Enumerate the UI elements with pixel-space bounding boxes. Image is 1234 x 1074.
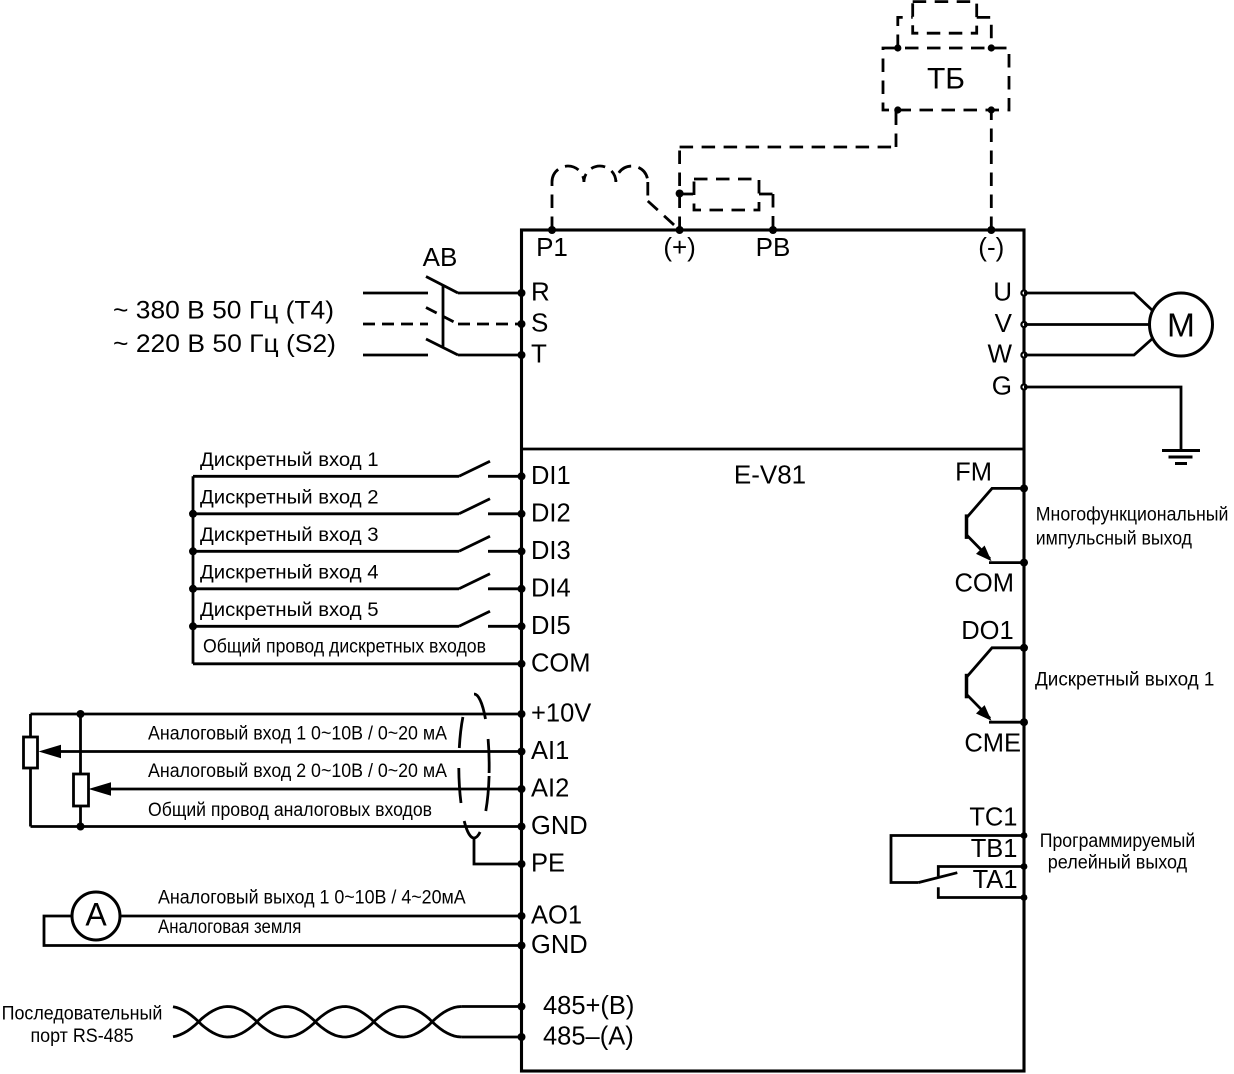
- svg-text:(+): (+): [663, 232, 696, 262]
- svg-text:TB1: TB1: [971, 835, 1018, 863]
- svg-text:Дискретный вход 2: Дискретный вход 2: [200, 487, 379, 508]
- svg-text:Дискретный вход 3: Дискретный вход 3: [200, 525, 379, 546]
- svg-text:Дискретный вход 4: Дискретный вход 4: [200, 562, 379, 583]
- svg-text:P1: P1: [536, 232, 568, 262]
- svg-text:485–(A): 485–(A): [543, 1023, 634, 1051]
- svg-text:~ 220 В 50 Гц (S2): ~ 220 В 50 Гц (S2): [113, 330, 336, 358]
- svg-text:TA1: TA1: [973, 866, 1018, 894]
- svg-text:U: U: [993, 277, 1012, 307]
- svg-text:PB: PB: [756, 232, 791, 262]
- svg-text:DO1: DO1: [961, 617, 1013, 645]
- svg-text:релейный выход: релейный выход: [1048, 853, 1187, 874]
- svg-text:DI3: DI3: [531, 537, 571, 565]
- svg-text:GND: GND: [531, 812, 588, 840]
- svg-text:Общий провод аналоговых входов: Общий провод аналоговых входов: [148, 800, 432, 821]
- svg-text:M: M: [1167, 308, 1195, 345]
- svg-text:DI2: DI2: [531, 499, 571, 527]
- svg-text:Аналоговый вход 2 0~10В / 0~20: Аналоговый вход 2 0~10В / 0~20 мА: [148, 761, 447, 782]
- svg-text:Общий провод дискретных входов: Общий провод дискретных входов: [203, 636, 486, 657]
- svg-text:COM: COM: [955, 569, 1015, 597]
- svg-text:DI1: DI1: [531, 462, 571, 490]
- svg-text:DI5: DI5: [531, 612, 571, 640]
- svg-text:Дискретный выход 1: Дискретный выход 1: [1035, 670, 1214, 691]
- svg-text:AI1: AI1: [531, 737, 569, 765]
- svg-text:(-): (-): [978, 232, 1004, 262]
- svg-text:А: А: [85, 897, 107, 933]
- svg-text:Аналоговый вход 1 0~10В / 0~20: Аналоговый вход 1 0~10В / 0~20 мА: [148, 724, 447, 745]
- svg-text:Последовательный: Последовательный: [2, 1004, 163, 1025]
- svg-text:GND: GND: [531, 931, 588, 959]
- svg-text:TC1: TC1: [969, 804, 1017, 832]
- svg-text:Аналоговая земля: Аналоговая земля: [158, 917, 301, 938]
- svg-text:S: S: [531, 308, 548, 338]
- svg-text:Дискретный вход 5: Дискретный вход 5: [200, 600, 379, 621]
- svg-text:AI2: AI2: [531, 775, 569, 803]
- svg-text:E-V81: E-V81: [734, 460, 806, 490]
- svg-text:АВ: АВ: [423, 242, 458, 272]
- svg-text:порт RS-485: порт RS-485: [30, 1026, 133, 1047]
- svg-text:FM: FM: [955, 458, 992, 486]
- svg-text:~ 380 В 50 Гц (Т4): ~ 380 В 50 Гц (Т4): [113, 297, 334, 325]
- svg-text:импульсный выход: импульсный выход: [1036, 529, 1192, 550]
- svg-text:485+(B): 485+(B): [543, 992, 634, 1020]
- svg-text:R: R: [531, 277, 550, 307]
- svg-text:Аналоговый выход 1 0~10В / 4~2: Аналоговый выход 1 0~10В / 4~20мА: [158, 888, 466, 909]
- svg-text:V: V: [995, 308, 1013, 338]
- svg-text:DI4: DI4: [531, 574, 571, 602]
- svg-text:+10V: +10V: [531, 700, 591, 728]
- svg-text:G: G: [992, 371, 1012, 401]
- svg-text:ТБ: ТБ: [927, 63, 965, 96]
- svg-text:Программируемый: Программируемый: [1040, 831, 1196, 852]
- svg-text:CME: CME: [964, 730, 1021, 758]
- svg-text:COM: COM: [531, 649, 591, 677]
- svg-text:W: W: [987, 339, 1012, 369]
- svg-text:Дискретный вход 1: Дискретный вход 1: [200, 450, 379, 471]
- svg-text:Многофункциональный: Многофункциональный: [1036, 505, 1229, 526]
- svg-text:AO1: AO1: [531, 902, 582, 930]
- svg-text:T: T: [531, 339, 547, 369]
- svg-text:PE: PE: [531, 850, 565, 878]
